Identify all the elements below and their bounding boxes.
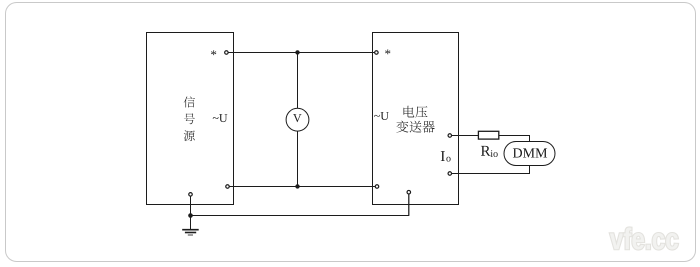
- text 变 transmitter: [396, 121, 408, 133]
- terminal transmitter ground: [407, 190, 411, 194]
- text voltmeter label V: [293, 114, 301, 122]
- junction bottom voltmeter node: [295, 184, 299, 188]
- signal source box: [147, 33, 234, 205]
- wire top bus y=52: [226, 52, 376, 54]
- resistor Rio body: [478, 131, 498, 139]
- wire middle bus y=186: [228, 186, 378, 188]
- text 电 transmitter: [404, 106, 415, 118]
- wire resistor to DMM: [499, 136, 530, 142]
- wire voltmeter branch bottom: [297, 131, 299, 186]
- text label ~U signal source: [213, 114, 228, 122]
- text polarity mark * transmitter: [385, 49, 390, 54]
- ground bar 2: [185, 232, 196, 234]
- wire Io top lead: [450, 135, 479, 137]
- wire transmitter bottom lead over box edge: [408, 194, 410, 216]
- text label ~U transmitter: [374, 112, 389, 120]
- text 号 signal source: [184, 113, 195, 124]
- text 信 signal source: [184, 96, 195, 107]
- voltmeter V circle: [286, 108, 309, 131]
- ground bar 3: [188, 234, 193, 236]
- text 器 transmitter: [422, 121, 434, 133]
- DMM meter body: [504, 142, 555, 166]
- text 送 transmitter: [410, 121, 422, 133]
- text polarity mark * signal source: [211, 50, 216, 55]
- text 压 transmitter: [415, 106, 427, 117]
- terminal transmitter Io -: [448, 172, 452, 176]
- wire middle bus over box edges: [228, 186, 378, 188]
- terminal signal source ground: [189, 193, 193, 197]
- ground bar 1: [182, 229, 199, 231]
- text label DMM: [513, 148, 547, 157]
- terminal signal source output +: [225, 51, 229, 55]
- wire top bus over box edges: [226, 52, 376, 54]
- terminal signal source output -: [226, 185, 230, 189]
- junction ground node: [188, 213, 193, 218]
- junction top voltmeter node: [295, 50, 299, 54]
- wire signal source ground lead: [190, 194, 192, 229]
- voltage transmitter box: [373, 33, 459, 205]
- text watermark vfe.cc: [610, 227, 678, 249]
- wire ground lead over box edge: [190, 196, 192, 230]
- text label Io I: [441, 151, 445, 161]
- terminal transmitter input -: [375, 185, 379, 189]
- text label Rio subscript io: [491, 150, 498, 157]
- wire voltmeter branch top: [297, 53, 299, 109]
- text label Io subscript o: [446, 157, 450, 162]
- text label Rio R: [481, 146, 491, 156]
- text 源 signal source: [184, 130, 195, 141]
- terminal transmitter input +: [375, 51, 379, 55]
- wire Io bottom lead: [450, 166, 530, 174]
- terminal transmitter Io +: [448, 134, 452, 138]
- wire ground bus y=215.5: [191, 192, 409, 215]
